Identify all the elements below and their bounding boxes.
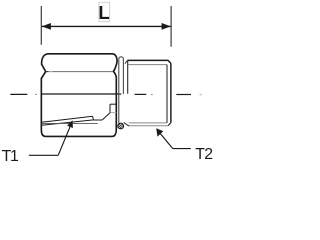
seat bore vertical xyxy=(109,104,111,113)
leader T2 horizontal xyxy=(173,148,191,150)
seat bore faint lower horizontal xyxy=(110,112,116,114)
centerline left dash xyxy=(10,93,27,95)
washer flange xyxy=(119,57,124,124)
centerline right dot xyxy=(200,94,202,96)
svg-text:2: 2 xyxy=(204,146,213,163)
centerline dot in male body xyxy=(151,94,153,96)
centerline left dot xyxy=(35,93,37,95)
hex facet line xyxy=(49,71,53,73)
thread end vertical xyxy=(166,65,168,123)
male bottom right chamfer xyxy=(168,123,171,126)
hex facet line main xyxy=(53,71,114,73)
seat bore diagonal xyxy=(102,113,110,120)
dimension arrow left xyxy=(42,23,51,30)
male bottom thread root line xyxy=(129,122,167,124)
arrowhead T2 xyxy=(156,128,163,136)
hex nut outline xyxy=(41,54,117,137)
dimension arrow right xyxy=(162,23,171,30)
male bottom outer line xyxy=(129,125,168,127)
female thread top slant line xyxy=(42,116,93,122)
svg-text:1: 1 xyxy=(10,148,19,165)
leader T1 horizontal xyxy=(29,154,58,156)
centerline right dash xyxy=(176,94,191,96)
male top thread root line xyxy=(128,64,167,66)
o-ring groove right wall xyxy=(124,122,129,126)
arrowhead T1 xyxy=(67,120,73,128)
dimension line L xyxy=(42,25,171,27)
o-ring xyxy=(118,123,124,129)
female thread minor line xyxy=(42,122,98,124)
extension line right xyxy=(170,6,172,47)
svg-text:L: L xyxy=(98,2,109,23)
hex facet line dark start xyxy=(46,71,49,73)
male body top outer line xyxy=(127,60,170,63)
leader T1 diagonal xyxy=(58,124,71,155)
centerline solid through hex xyxy=(42,93,122,95)
male body right end face xyxy=(170,63,172,122)
seat bore top horizontal xyxy=(110,103,116,105)
male body left edge xyxy=(127,60,129,93)
label L box xyxy=(99,2,110,21)
centerline dash in male body xyxy=(135,93,147,95)
seat bore bottom line xyxy=(93,119,102,121)
female thread end closure xyxy=(92,116,95,120)
leader T2 diagonal xyxy=(159,132,173,148)
extension line left xyxy=(40,6,42,45)
male top-left chamfer xyxy=(125,61,127,64)
female thread bottom slant line xyxy=(42,120,94,125)
